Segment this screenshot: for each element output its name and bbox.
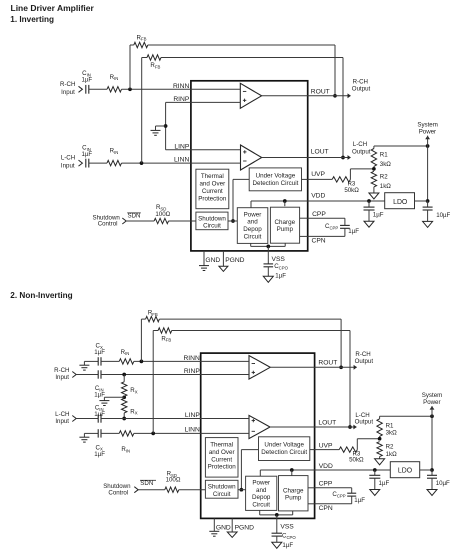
svg-text:L-CH: L-CH — [353, 141, 367, 148]
svg-text:1µF: 1µF — [354, 497, 365, 504]
svg-text:1µF: 1µF — [81, 151, 92, 158]
svg-text:System: System — [417, 121, 437, 128]
svg-text:1µF: 1µF — [379, 480, 390, 487]
svg-text:VDD: VDD — [311, 193, 325, 200]
svg-text:Output: Output — [352, 86, 371, 93]
svg-text:Circuit: Circuit — [252, 501, 270, 508]
svg-text:1kΩ: 1kΩ — [380, 183, 391, 190]
svg-text:100Ω: 100Ω — [155, 211, 170, 218]
svg-text:Input: Input — [61, 89, 75, 96]
svg-text:RINN: RINN — [183, 355, 200, 362]
svg-text:Shutdown: Shutdown — [198, 215, 226, 222]
svg-text:Circuit: Circuit — [244, 233, 262, 240]
svg-text:Under Voltage: Under Voltage — [264, 441, 304, 448]
svg-text:Output: Output — [352, 148, 371, 155]
svg-text:Pump: Pump — [285, 495, 302, 502]
svg-text:1µF: 1µF — [282, 542, 293, 549]
svg-text:Power: Power — [419, 129, 436, 136]
svg-text:1µF: 1µF — [81, 76, 92, 83]
svg-text:SDN: SDN — [128, 213, 141, 220]
svg-text:Circuit: Circuit — [213, 491, 231, 498]
svg-text:RINP: RINP — [184, 368, 201, 375]
svg-text:Protection: Protection — [198, 195, 227, 202]
svg-text:LDO: LDO — [398, 467, 413, 474]
svg-text:Power: Power — [252, 479, 270, 486]
svg-text:UVP: UVP — [311, 171, 325, 178]
svg-text:Depop: Depop — [243, 226, 262, 233]
svg-text:ROUT: ROUT — [318, 360, 337, 367]
svg-text:LINP: LINP — [185, 412, 200, 419]
svg-text:Control: Control — [108, 489, 128, 496]
svg-text:LINN: LINN — [174, 157, 189, 164]
svg-text:Shutdown: Shutdown — [208, 484, 236, 491]
svg-text:R1: R1 — [386, 423, 394, 430]
svg-text:10µF: 10µF — [436, 480, 450, 487]
svg-text:L-CH: L-CH — [61, 155, 75, 162]
svg-text:2. Non-Inverting: 2. Non-Inverting — [10, 291, 72, 300]
svg-text:50kΩ: 50kΩ — [349, 457, 364, 464]
svg-text:Power: Power — [423, 399, 440, 406]
svg-text:PGND: PGND — [225, 257, 244, 264]
svg-text:LOUT: LOUT — [318, 420, 336, 427]
svg-text:CPN: CPN — [312, 238, 326, 245]
svg-text:and Over: and Over — [209, 449, 235, 456]
svg-text:VSS: VSS — [280, 524, 294, 531]
svg-text:RINN: RINN — [173, 83, 190, 90]
svg-text:PGND: PGND — [235, 525, 254, 532]
svg-text:1µF: 1µF — [94, 451, 105, 458]
svg-text:Current: Current — [202, 188, 223, 195]
svg-text:LINN: LINN — [185, 427, 200, 434]
svg-text:and: and — [256, 487, 267, 494]
svg-text:1µF: 1µF — [373, 212, 384, 219]
svg-text:SDN: SDN — [140, 480, 153, 487]
svg-text:LOUT: LOUT — [311, 148, 329, 155]
svg-text:ROUT: ROUT — [311, 89, 330, 96]
svg-text:GND: GND — [216, 525, 231, 532]
svg-text:Control: Control — [98, 221, 118, 228]
svg-text:CPP: CPP — [312, 211, 326, 218]
svg-text:R-CH: R-CH — [60, 81, 75, 88]
svg-text:Circuit: Circuit — [203, 223, 221, 230]
svg-text:Thermal: Thermal — [201, 173, 224, 180]
svg-text:R-CH: R-CH — [355, 351, 370, 358]
svg-text:Thermal: Thermal — [210, 442, 233, 449]
svg-text:Line Driver Amplifier: Line Driver Amplifier — [11, 3, 95, 13]
svg-text:Depop: Depop — [252, 494, 271, 501]
svg-text:CPN: CPN — [319, 505, 333, 512]
svg-text:Detection Circuit: Detection Circuit — [261, 449, 307, 456]
svg-text:Output: Output — [355, 358, 374, 365]
svg-text:Pump: Pump — [277, 226, 294, 233]
svg-text:RINP: RINP — [173, 96, 190, 103]
svg-text:GND: GND — [205, 257, 220, 264]
svg-text:Under Voltage: Under Voltage — [256, 173, 296, 180]
svg-text:VSS: VSS — [272, 256, 286, 263]
svg-text:System: System — [422, 392, 442, 399]
svg-text:UVP: UVP — [319, 443, 333, 450]
svg-text:1µF: 1µF — [94, 391, 105, 398]
svg-text:Detection Circuit: Detection Circuit — [252, 180, 298, 187]
svg-text:3kΩ: 3kΩ — [386, 430, 397, 437]
svg-text:50kΩ: 50kΩ — [344, 187, 359, 194]
svg-text:Input: Input — [55, 418, 69, 425]
svg-text:Output: Output — [355, 419, 374, 426]
svg-text:R1: R1 — [380, 152, 388, 159]
svg-text:Input: Input — [61, 162, 75, 169]
svg-text:Power: Power — [244, 211, 262, 218]
svg-text:1µF: 1µF — [94, 349, 105, 356]
svg-text:Charge: Charge — [283, 487, 304, 494]
svg-text:Protection: Protection — [208, 464, 237, 471]
svg-text:100Ω: 100Ω — [166, 476, 181, 483]
svg-text:R2: R2 — [386, 443, 394, 450]
svg-text:R2: R2 — [380, 174, 388, 181]
svg-text:VDD: VDD — [319, 463, 333, 470]
svg-text:R-CH: R-CH — [353, 79, 368, 86]
svg-text:Current: Current — [211, 456, 232, 463]
svg-text:and Over: and Over — [199, 181, 225, 188]
svg-text:Charge: Charge — [275, 219, 296, 226]
svg-text:and: and — [247, 219, 258, 226]
svg-text:LINP: LINP — [174, 143, 189, 150]
svg-text:1kΩ: 1kΩ — [386, 451, 397, 458]
svg-text:1. Inverting: 1. Inverting — [10, 15, 54, 24]
svg-text:LDO: LDO — [393, 199, 408, 206]
svg-text:Input: Input — [55, 374, 69, 381]
svg-text:CPP: CPP — [319, 480, 333, 487]
svg-text:1µF: 1µF — [275, 272, 286, 279]
svg-text:3kΩ: 3kΩ — [380, 161, 391, 168]
svg-text:10µF: 10µF — [436, 212, 450, 219]
svg-text:1µF: 1µF — [94, 411, 105, 418]
svg-text:1µF: 1µF — [348, 228, 359, 235]
